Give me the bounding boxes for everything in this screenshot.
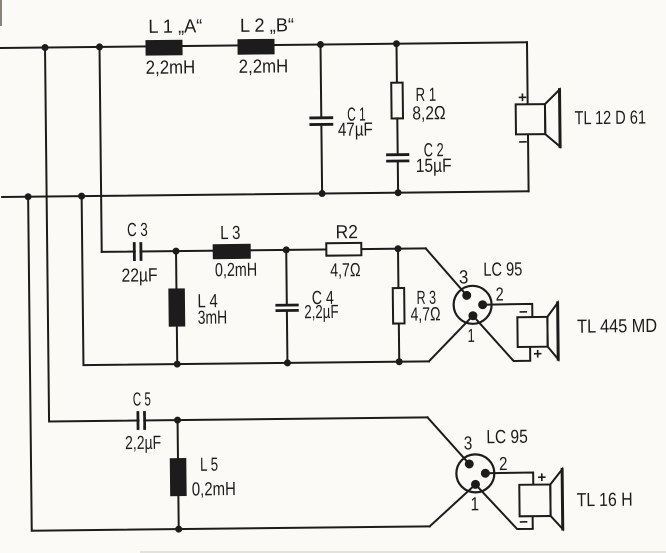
svg-text:2: 2: [499, 454, 508, 475]
wire diagonal C5 rail to connector2 pin3: [428, 417, 470, 464]
svg-text:L 3: L 3: [220, 223, 241, 244]
capacitor C1 branch: [320, 45, 323, 118]
inductor L3: [214, 245, 250, 258]
svg-text:15µF: 15µF: [416, 156, 452, 177]
svg-text:2,2µF: 2,2µF: [304, 302, 338, 323]
wire connector2 pin2 to speaker plus: [485, 472, 533, 485]
wire diagonal mid-top to connector pin3: [426, 248, 467, 296]
svg-text:R2: R2: [335, 222, 358, 243]
inductor L5 branch: [177, 420, 179, 459]
scan edge artifact bottom: [140, 551, 666, 552]
svg-text:TL 16 H: TL 16 H: [577, 490, 633, 512]
svg-text:−: −: [518, 134, 527, 151]
svg-text:C 3: C 3: [127, 220, 148, 241]
svg-text:L 1 „A“: L 1 „A“: [148, 16, 202, 38]
svg-text:C 5: C 5: [133, 389, 151, 410]
wire diagonal mid-bottom to connector pin1: [428, 316, 473, 362]
connector LC95 (mid): [453, 286, 491, 324]
inductor L1: [146, 41, 181, 55]
svg-text:8,2Ω: 8,2Ω: [412, 103, 446, 124]
svg-text:3: 3: [459, 267, 469, 288]
resistor R2 (series, horizontal): [326, 243, 361, 256]
speaker TL 12 D 61: [516, 104, 546, 134]
svg-text:3: 3: [464, 433, 473, 454]
wire connector2 pin1 to speaker minus: [475, 484, 532, 530]
svg-text:TL 12 D 61: TL 12 D 61: [574, 108, 646, 130]
svg-text:+: +: [537, 469, 546, 486]
svg-text:2,2µF: 2,2µF: [125, 433, 161, 454]
scan edge artifact left: [0, 0, 2, 26]
svg-text:47µF: 47µF: [338, 119, 373, 140]
inductor L2: [238, 40, 273, 54]
capacitor C5 (series, vertical plates): [136, 413, 139, 429]
speaker TL 445 MD: [517, 317, 547, 347]
speaker TL 16 H: [519, 484, 550, 516]
resistor R1 + capacitor C2 branch: [395, 44, 397, 83]
wire left vertical x79 to mid bottom rail: [82, 192, 429, 365]
svg-text:LC 95: LC 95: [486, 427, 528, 448]
wire right drop to speaker TL12D61: [527, 42, 529, 191]
svg-text:2: 2: [496, 285, 504, 306]
svg-text:4,7Ω: 4,7Ω: [330, 260, 361, 281]
svg-text:+: +: [518, 89, 527, 106]
svg-text:−: −: [519, 304, 528, 321]
svg-text:LC 95: LC 95: [483, 259, 522, 280]
svg-text:22µF: 22µF: [121, 265, 157, 286]
svg-text:1: 1: [467, 326, 474, 347]
svg-text:+: +: [533, 346, 542, 363]
wire left vertical x99 to C3 feed: [100, 47, 102, 252]
svg-text:4,7Ω: 4,7Ω: [410, 304, 440, 325]
wire second rail (return): [2, 191, 528, 197]
svg-text:L 5: L 5: [200, 455, 218, 476]
wire diagonal bottom rail to connector2 pin1: [429, 484, 476, 526]
capacitor C3 (series, vertical plates): [133, 244, 136, 260]
svg-text:2,2mH: 2,2mH: [146, 57, 196, 79]
inductor L4 branch: [175, 251, 177, 289]
svg-text:L 2 „B“: L 2 „B“: [240, 15, 294, 37]
svg-text:TL 445 MD: TL 445 MD: [577, 316, 657, 338]
capacitor C4 branch: [285, 250, 288, 305]
wire top rail: [1, 42, 527, 48]
wire left vertical x26 to bottom rail: [28, 192, 430, 530]
wire mid top rail: [102, 248, 426, 252]
svg-text:3mH: 3mH: [198, 308, 228, 329]
wire connector pin2 to speaker minus: [483, 304, 533, 318]
wire left vertical x45 to C5 feed: [45, 43, 428, 421]
svg-text:2,2mH: 2,2mH: [239, 56, 289, 78]
svg-text:1: 1: [470, 494, 479, 515]
svg-text:0,2mH: 0,2mH: [192, 479, 236, 500]
resistor R3 branch: [397, 249, 399, 288]
svg-text:0,2mH: 0,2mH: [215, 260, 257, 281]
svg-text:−: −: [519, 514, 528, 531]
connector LC95 (bottom): [456, 454, 494, 492]
wire connector pin1 to speaker plus: [473, 315, 530, 361]
